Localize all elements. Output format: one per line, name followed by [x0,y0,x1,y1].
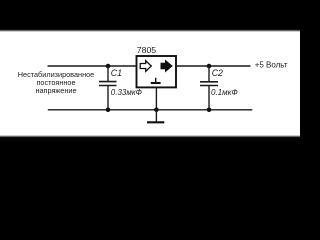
label: Нестабилизированное постоянное напряжение [18,70,94,95]
letterbox bottom bar [0,135,300,138]
ground [155,110,157,122]
svg-text:C1: C1 [111,68,122,78]
regulator ground pin symbol [155,78,157,82]
node: junction C1/top [106,64,111,69]
node: junction C1/bottom [106,108,111,113]
capacitor C1 [99,66,117,110]
node: junction C2/bottom [207,108,212,113]
input arrow (outline) [140,61,151,72]
wire: output top wire [176,65,251,67]
regulator U1 7805 box [137,56,177,87]
svg-text:7805: 7805 [137,45,156,55]
capacitor C2 [200,66,218,110]
wire: regulator ground to bottom rail [155,88,157,110]
node: junction center/bottom [154,108,159,113]
node: junction C2/top [207,64,212,69]
svg-text:напряжение: напряжение [35,86,76,95]
svg-text:0.1мкФ: 0.1мкФ [211,88,238,97]
wire: input top wire [48,65,138,67]
svg-text:C2: C2 [212,68,223,78]
svg-text:+5 Вольт: +5 Вольт [255,61,288,70]
letterbox top bar [0,0,300,30]
svg-text:0.33мкФ: 0.33мкФ [111,88,143,97]
wire: bottom rail [48,109,253,111]
output arrow (filled) [161,61,172,72]
